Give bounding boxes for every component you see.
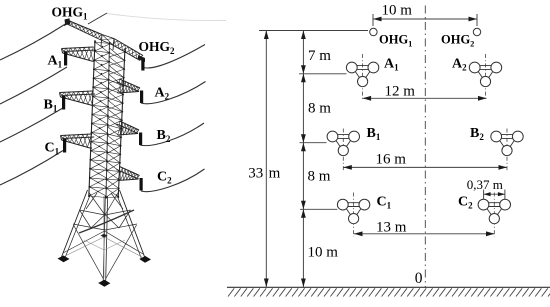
10 m dimension line (C-ground) bbox=[301, 209, 306, 287]
phase B1 axis (dash-dot) bbox=[342, 129, 344, 171]
extension line C level bbox=[300, 208, 337, 210]
svg-text:A1: A1 bbox=[48, 54, 63, 70]
OHG2 peak tip and insulator bbox=[138, 55, 145, 71]
8 m dimension line (B-C) bbox=[301, 143, 306, 210]
crossarm A1 with insulator bbox=[62, 47, 97, 66]
phase C1 bundle bbox=[337, 199, 369, 224]
ground line bbox=[227, 286, 550, 288]
0.37 m bundle spacing dimension bbox=[484, 190, 505, 200]
crossarm A2 with insulator bbox=[117, 79, 144, 103]
phase A2 axis (dash-dot) bbox=[485, 54, 487, 101]
phase C2 bundle bbox=[478, 199, 510, 224]
svg-text:OHG1: OHG1 bbox=[52, 5, 89, 22]
phase C1 axis (dash-dot) bbox=[353, 193, 355, 237]
conductor OHG2 right span bbox=[144, 45, 206, 68]
svg-text:33: 33 bbox=[248, 166, 263, 182]
svg-text:10 m: 10 m bbox=[308, 245, 339, 261]
conductor stub behind peak bbox=[88, 13, 107, 24]
tower foot back bbox=[101, 234, 108, 238]
phase A2 bundle bbox=[469, 62, 501, 87]
svg-text:OHG2: OHG2 bbox=[441, 33, 474, 49]
svg-text:C1: C1 bbox=[377, 195, 392, 211]
conductor A2 right span bbox=[141, 82, 206, 104]
10 m dimension line bbox=[373, 14, 477, 26]
conductor OHG1 left span bbox=[0, 23, 67, 60]
extension line A level bbox=[299, 73, 347, 75]
svg-text:10 m: 10 m bbox=[382, 2, 413, 18]
svg-text:B1: B1 bbox=[44, 98, 58, 114]
crossarm C1 with insulator bbox=[61, 134, 95, 153]
12 m dimension line bbox=[363, 96, 487, 101]
svg-text:B2: B2 bbox=[470, 126, 484, 142]
tower centerline (dash-dot) bbox=[424, 6, 426, 288]
tower legs and base bracing bbox=[62, 190, 146, 281]
phase A1 bundle bbox=[346, 62, 378, 87]
extension line B level bbox=[300, 142, 327, 144]
shield wire OHG1 circle bbox=[370, 28, 377, 35]
svg-text:A2: A2 bbox=[155, 86, 170, 102]
tower peak truss bbox=[65, 18, 144, 60]
svg-text:OHG2: OHG2 bbox=[139, 39, 176, 56]
svg-text:C2: C2 bbox=[458, 195, 473, 211]
13 m dimension line bbox=[354, 231, 495, 236]
svg-text:16 m: 16 m bbox=[376, 152, 407, 168]
conductor C1 left span bbox=[0, 151, 63, 186]
svg-text:8 m: 8 m bbox=[308, 101, 331, 117]
svg-text:A2: A2 bbox=[452, 57, 467, 73]
svg-text:C2: C2 bbox=[157, 170, 172, 186]
svg-text:OHG1: OHG1 bbox=[379, 33, 412, 49]
phase A1 axis (dash-dot) bbox=[362, 54, 364, 101]
extension line top (OHG level) bbox=[259, 30, 368, 32]
svg-text:C1: C1 bbox=[45, 141, 60, 157]
svg-text:m: m bbox=[269, 166, 281, 182]
phase B2 bundle bbox=[491, 131, 523, 156]
tower mast lattice bbox=[88, 40, 126, 199]
svg-text:0,37 m: 0,37 m bbox=[467, 177, 503, 192]
svg-text:13 m: 13 m bbox=[376, 220, 407, 236]
7 m dimension line bbox=[301, 31, 306, 74]
crossarm C2 with insulator bbox=[117, 167, 143, 191]
conductor A1 left span bbox=[0, 67, 67, 104]
33 m dimension line bbox=[264, 31, 269, 288]
16 m dimension line bbox=[343, 165, 507, 170]
svg-text:A1: A1 bbox=[384, 57, 399, 73]
svg-text:0: 0 bbox=[415, 270, 423, 287]
tower foot left bbox=[58, 256, 70, 263]
crossarm B2 with insulator bbox=[117, 121, 143, 145]
conductor B1 left span bbox=[0, 109, 62, 143]
8 m dimension line (A-B) bbox=[301, 74, 306, 143]
conductor B2 right span bbox=[140, 123, 204, 146]
svg-text:B2: B2 bbox=[157, 128, 171, 144]
phase B2 axis (dash-dot) bbox=[506, 129, 508, 171]
phase B1 bundle bbox=[327, 131, 359, 156]
phase C2 axis (dash-dot) bbox=[493, 193, 495, 237]
svg-text:12 m: 12 m bbox=[385, 84, 416, 100]
svg-text:B1: B1 bbox=[367, 126, 381, 142]
crossarm B1 with insulator bbox=[60, 91, 96, 110]
tower foot front bbox=[98, 280, 110, 287]
conductor C2 right span bbox=[141, 169, 205, 192]
tower foot right bbox=[139, 256, 151, 263]
svg-text:7 m: 7 m bbox=[308, 48, 331, 64]
svg-text:8 m: 8 m bbox=[308, 169, 331, 185]
shield wire OHG2 circle bbox=[473, 28, 480, 35]
conductor OHG1 far span bbox=[107, 14, 226, 21]
ground hatching bbox=[228, 288, 550, 296]
